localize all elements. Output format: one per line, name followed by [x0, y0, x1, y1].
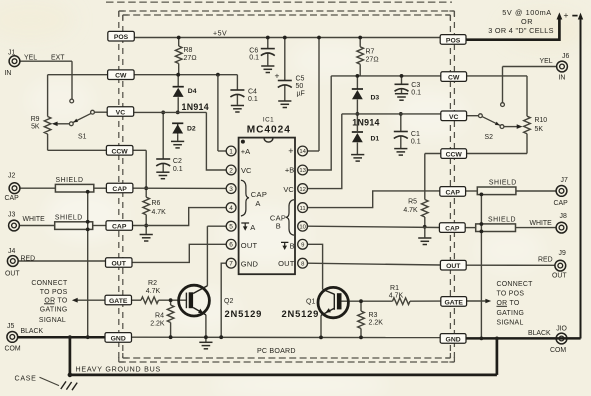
- svg-text:5K: 5K: [31, 123, 40, 130]
- svg-text:CCW: CCW: [111, 148, 128, 155]
- svg-text:2.2K: 2.2K: [369, 320, 384, 327]
- svg-text:CONNECT: CONNECT: [497, 281, 534, 288]
- svg-text:D4: D4: [188, 88, 197, 95]
- svg-text:+: +: [288, 146, 293, 156]
- svg-text:B: B: [276, 222, 281, 231]
- svg-text:COM: COM: [5, 346, 21, 353]
- svg-text:IC1: IC1: [263, 116, 274, 123]
- svg-text:CW: CW: [115, 73, 127, 80]
- svg-text:OUT: OUT: [552, 272, 567, 279]
- svg-text:27Ω: 27Ω: [366, 56, 379, 63]
- svg-text:JIO: JIO: [556, 326, 567, 333]
- svg-text:D3: D3: [371, 95, 380, 102]
- svg-text:PC BOARD: PC BOARD: [257, 347, 296, 355]
- svg-text:3 OR 4 "D" CELLS: 3 OR 4 "D" CELLS: [488, 26, 554, 35]
- svg-text:CAP: CAP: [554, 200, 569, 207]
- svg-text:R9: R9: [31, 116, 40, 123]
- svg-text:GND: GND: [446, 336, 461, 343]
- svg-text:COM: COM: [550, 347, 566, 354]
- svg-text:1: 1: [229, 148, 233, 155]
- svg-text:SHIELD: SHIELD: [488, 217, 516, 224]
- svg-text:J1: J1: [8, 50, 15, 57]
- svg-text:R1: R1: [390, 285, 399, 292]
- svg-text:27Ω: 27Ω: [184, 55, 197, 62]
- svg-text:Q1: Q1: [306, 299, 315, 306]
- svg-text:J3: J3: [8, 212, 15, 219]
- svg-text:S1: S1: [78, 134, 87, 141]
- svg-text:TO POS: TO POS: [40, 289, 68, 296]
- svg-text:5: 5: [229, 224, 233, 231]
- svg-text:+5V: +5V: [213, 30, 227, 37]
- svg-text:WHITE: WHITE: [23, 216, 46, 223]
- svg-text:GATING: GATING: [497, 310, 525, 317]
- svg-text:IN: IN: [5, 70, 12, 77]
- svg-text:1N914: 1N914: [182, 102, 209, 112]
- svg-text:2N5129: 2N5129: [282, 308, 320, 319]
- svg-text:GATING: GATING: [40, 306, 68, 313]
- svg-text:3: 3: [229, 186, 233, 193]
- svg-text:R10: R10: [535, 117, 548, 124]
- svg-text:YEL: YEL: [540, 58, 553, 65]
- svg-text:R4: R4: [155, 312, 164, 319]
- svg-text:WHITE: WHITE: [530, 220, 553, 227]
- svg-text:CAP: CAP: [445, 226, 460, 233]
- svg-text:+B: +B: [285, 166, 294, 175]
- svg-text:VC: VC: [449, 114, 459, 121]
- svg-text:C5: C5: [296, 75, 305, 82]
- svg-text:C4: C4: [248, 89, 257, 96]
- svg-text:GATE: GATE: [109, 298, 128, 305]
- svg-text:EXT: EXT: [51, 55, 65, 62]
- svg-text:RED: RED: [21, 255, 36, 262]
- svg-text:HEAVY GROUND BUS: HEAVY GROUND BUS: [76, 365, 161, 373]
- svg-text:TO POS: TO POS: [497, 290, 525, 297]
- svg-text:OUT: OUT: [446, 263, 461, 270]
- svg-text:2.2K: 2.2K: [150, 321, 165, 328]
- svg-text:7: 7: [229, 261, 233, 268]
- svg-text:J2: J2: [8, 173, 15, 180]
- svg-text:BLACK: BLACK: [21, 328, 44, 335]
- svg-text:OR TO: OR TO: [497, 300, 520, 307]
- svg-text:+A: +A: [241, 147, 250, 156]
- svg-text:Q2: Q2: [224, 298, 233, 305]
- svg-text:J4: J4: [8, 248, 15, 255]
- svg-text:0.1: 0.1: [173, 166, 183, 173]
- svg-text:R8: R8: [184, 47, 193, 54]
- svg-text:R2: R2: [148, 280, 157, 287]
- svg-text:S2: S2: [485, 134, 494, 141]
- svg-text:CW: CW: [448, 75, 460, 82]
- svg-text:CASE: CASE: [15, 374, 37, 382]
- svg-text:14: 14: [299, 149, 306, 155]
- svg-text:2: 2: [229, 167, 233, 174]
- svg-text:0.1: 0.1: [411, 89, 421, 96]
- svg-text:OUT: OUT: [112, 261, 127, 268]
- svg-text:SIGNAL: SIGNAL: [497, 319, 524, 326]
- svg-text:2N5129: 2N5129: [225, 308, 263, 319]
- svg-text:12: 12: [299, 187, 306, 193]
- svg-text:CAP: CAP: [112, 224, 127, 231]
- svg-text:C3: C3: [411, 82, 420, 89]
- svg-text:OUT: OUT: [241, 241, 258, 250]
- svg-text:D1: D1: [371, 136, 380, 143]
- svg-text:SHIELD: SHIELD: [489, 179, 517, 186]
- svg-text:BLACK: BLACK: [528, 330, 551, 337]
- svg-text:R6: R6: [152, 200, 161, 207]
- svg-text:SHIELD: SHIELD: [55, 214, 83, 221]
- svg-text:OUT: OUT: [5, 271, 20, 278]
- svg-text:R7: R7: [366, 49, 375, 56]
- svg-text:5K: 5K: [535, 126, 544, 133]
- svg-text:A: A: [255, 199, 260, 208]
- svg-text:J9: J9: [559, 250, 566, 257]
- svg-text:GND: GND: [241, 259, 259, 268]
- svg-text:4.7K: 4.7K: [146, 288, 161, 295]
- svg-text:50: 50: [296, 83, 304, 90]
- svg-text:GATE: GATE: [445, 299, 464, 306]
- svg-text:RED: RED: [538, 256, 553, 263]
- svg-text:J8: J8: [560, 213, 567, 220]
- svg-text:CAP: CAP: [112, 186, 127, 193]
- svg-text:R5: R5: [408, 199, 417, 206]
- svg-text:CONNECT: CONNECT: [31, 280, 68, 287]
- svg-text:IN: IN: [559, 74, 566, 81]
- svg-text:J5: J5: [7, 323, 14, 330]
- svg-text:OUT: OUT: [278, 259, 295, 268]
- svg-text:B: B: [290, 241, 295, 250]
- svg-text:R3: R3: [369, 312, 378, 319]
- svg-text:VC: VC: [241, 166, 252, 175]
- svg-text:1N914: 1N914: [352, 118, 379, 128]
- svg-text:C2: C2: [173, 158, 182, 165]
- svg-text:CAP: CAP: [5, 195, 20, 202]
- svg-text:YEL: YEL: [24, 55, 37, 62]
- svg-text:11: 11: [300, 206, 306, 212]
- svg-text:+: +: [275, 70, 280, 80]
- svg-text:VC: VC: [283, 185, 294, 194]
- svg-text:9: 9: [301, 243, 304, 249]
- svg-text:10: 10: [299, 224, 306, 230]
- svg-text:VC: VC: [116, 110, 126, 117]
- svg-text:13: 13: [299, 168, 306, 174]
- svg-text:OR: OR: [521, 17, 533, 26]
- svg-text:MC4024: MC4024: [247, 125, 291, 136]
- svg-text:4: 4: [229, 205, 233, 212]
- svg-text:C1: C1: [411, 131, 420, 138]
- svg-text:J6: J6: [562, 53, 569, 60]
- svg-text:4.7K: 4.7K: [389, 292, 404, 299]
- svg-text:CCW: CCW: [446, 152, 463, 159]
- svg-text:0.1: 0.1: [249, 55, 259, 62]
- svg-text:5V @ 100mA: 5V @ 100mA: [502, 8, 552, 17]
- svg-text:CAP: CAP: [446, 189, 461, 196]
- svg-text:C6: C6: [249, 48, 258, 55]
- svg-text:4.7K: 4.7K: [152, 209, 167, 216]
- svg-text:0.1: 0.1: [248, 96, 258, 103]
- svg-text:4.7K: 4.7K: [403, 207, 418, 214]
- svg-text:POS: POS: [114, 34, 129, 41]
- svg-text:A: A: [250, 223, 255, 232]
- svg-text:SHIELD: SHIELD: [56, 177, 84, 184]
- svg-text:GND: GND: [111, 335, 126, 342]
- svg-text:SIGNAL: SIGNAL: [39, 317, 66, 324]
- svg-text:POS: POS: [446, 37, 461, 44]
- svg-text:+: +: [564, 10, 569, 20]
- svg-text:D2: D2: [187, 126, 196, 133]
- svg-text:0.1: 0.1: [411, 138, 421, 145]
- svg-text:6: 6: [229, 242, 233, 249]
- svg-text:µF: µF: [297, 91, 305, 98]
- svg-text:J7: J7: [561, 177, 568, 184]
